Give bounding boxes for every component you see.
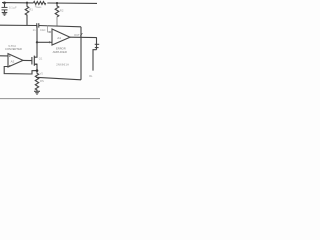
ground (2, 13, 8, 16)
wire A2 feedback loop (4, 67, 37, 75)
svg-text:A2: A2 (11, 59, 15, 63)
resistor R1 (25, 3, 29, 25)
svg-text:2N6661A: 2N6661A (56, 63, 69, 67)
pin A2 non-inverting mark (9, 55, 11, 57)
wire battery to load (93, 50, 97, 71)
bottom page rule (0, 98, 100, 100)
node drain tap junction (36, 41, 38, 43)
svg-text:0.1 µF: 0.1 µF (9, 6, 17, 10)
resistor RS (35, 71, 38, 92)
svg-text:OUT: OUT (74, 33, 80, 37)
pin inverting input (48, 25, 52, 32)
wire R2 bottom lead (56, 17, 58, 26)
svg-text:BIAS: BIAS (37, 6, 42, 9)
pin non-inverting input (37, 41, 52, 43)
pin A1 inverting mark (49, 31, 51, 33)
svg-text:RS: RS (40, 79, 44, 83)
transistor Q1 source arrow (35, 63, 37, 65)
wire load return rail (36, 77, 81, 80)
svg-text:1n: 1n (33, 28, 36, 32)
wire bias node right (39, 26, 81, 27)
node source junction (36, 69, 39, 72)
wire A2 output to gate (23, 59, 32, 61)
pin A1 non-inverting mark (49, 41, 51, 43)
wire A2 input (0, 55, 8, 57)
svg-text:Q1: Q1 (39, 57, 43, 61)
node VCC junction left (3, 1, 6, 4)
arrow mark (80, 33, 82, 36)
wire A1 output (70, 36, 97, 38)
svg-text:ERROR: ERROR (56, 46, 66, 50)
op-amp A2 (8, 54, 23, 67)
capacitor C1 (4, 3, 6, 8)
svg-text:VS: VS (40, 72, 44, 75)
capacitor CAC (36, 23, 38, 27)
svg-text:A1: A1 (57, 36, 61, 40)
op-amp A1 (52, 29, 70, 45)
resistor R2 (55, 3, 59, 17)
svg-text:CAC: CAC (40, 28, 46, 32)
svg-text:CONVERTER: CONVERTER (5, 47, 22, 51)
wire top rail (2, 2, 33, 4)
wire feedback vertical (80, 27, 82, 80)
ground RS (34, 91, 40, 94)
battery B1 (96, 38, 98, 50)
node R1 top junction (26, 2, 28, 4)
transistor Q1 (33, 56, 35, 66)
svg-text:RL: RL (89, 74, 93, 78)
wire bias node (0, 24, 37, 26)
wire top rail right segment (47, 2, 97, 4)
MOSFET Q1 drain wire (34, 26, 37, 58)
svg-text:R2: R2 (60, 9, 64, 13)
svg-text:AMPLIFIER: AMPLIFIER (53, 50, 67, 54)
node R2 top junction (56, 2, 58, 4)
pin A2 inverting mark (9, 64, 11, 66)
svg-text:R1: R1 (29, 8, 33, 12)
resistor RBIAS (34, 2, 46, 5)
